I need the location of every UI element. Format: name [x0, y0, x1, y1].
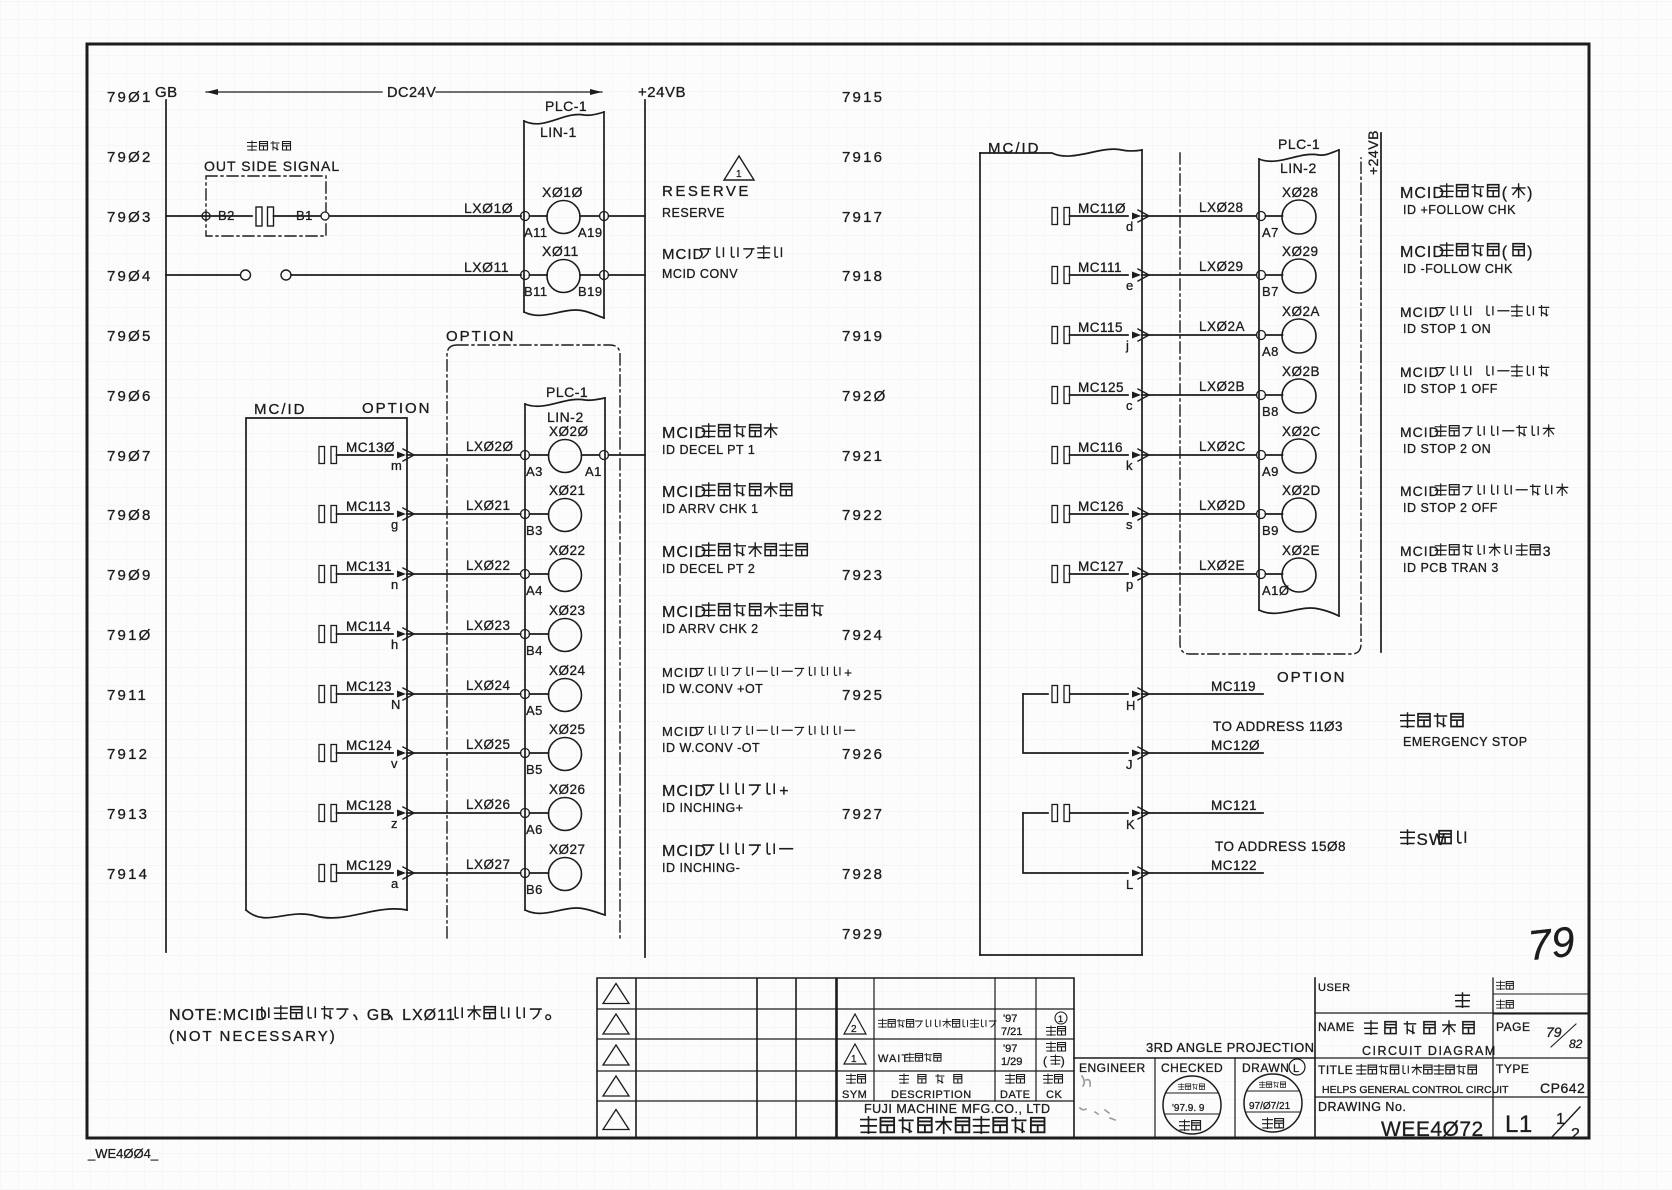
svg-text:XØ21: XØ21: [549, 483, 586, 498]
wire MC128 to MC/ID box edge: [337, 812, 394, 814]
svg-text:+24VB: +24VB: [638, 84, 686, 101]
svg-text:7918: 7918: [842, 268, 884, 285]
wire row 7904 from GB bus: [166, 274, 240, 276]
svg-text:ID INCHING+: ID INCHING+: [662, 801, 744, 815]
svg-text:ID DECEL PT 1: ID DECEL PT 1: [662, 443, 755, 457]
svg-text:7923: 7923: [842, 567, 884, 584]
svg-text:792Ø: 792Ø: [842, 388, 888, 405]
svg-text:MCID: MCID: [1400, 364, 1440, 380]
revision 2 entry: [844, 1014, 866, 1034]
node B5 connector circle: [521, 749, 530, 758]
svg-text:7912: 7912: [107, 746, 149, 763]
PLC input XØ25: [530, 752, 549, 754]
wire LXØ21: [407, 513, 521, 515]
svg-text:'97: '97: [1003, 1013, 1017, 1025]
svg-text:g: g: [391, 517, 398, 532]
svg-text:A9: A9: [1262, 464, 1279, 479]
svg-text:7/21: 7/21: [1001, 1026, 1022, 1038]
svg-text:a: a: [391, 876, 399, 891]
wire MC11Ø to box edge: [1070, 215, 1129, 217]
bus GB vertical wire: [165, 100, 167, 952]
wire row 7904 to PLC: [291, 274, 521, 276]
arrow into option bus: [397, 691, 406, 698]
svg-text:MC123: MC123: [346, 679, 392, 694]
wire row 7903 from GB bus to contact: [166, 215, 252, 217]
connector pins MC124: [319, 745, 325, 762]
svg-text:MC114: MC114: [346, 619, 391, 634]
svg-text:K: K: [1126, 817, 1135, 832]
svg-text:LXØ25: LXØ25: [466, 737, 511, 752]
svg-text:TITLE: TITLE: [1318, 1063, 1353, 1077]
svg-text:MCID: MCID: [1400, 483, 1440, 499]
svg-text:NOTE:MCID: NOTE:MCID: [169, 1007, 268, 1024]
svg-text:7928: 7928: [842, 866, 884, 883]
svg-text:MC129: MC129: [346, 858, 392, 873]
svg-text:MCID: MCID: [1400, 244, 1445, 261]
node A7 connector circle: [1257, 212, 1266, 221]
signature cells: [1155, 1058, 1235, 1138]
connector pins MC129: [319, 865, 325, 882]
bus +24VB vertical wire: [644, 100, 646, 957]
svg-text:L1: L1: [1505, 1111, 1533, 1138]
svg-text:EMERGENCY STOP: EMERGENCY STOP: [1403, 735, 1528, 749]
wire MC116 to box edge: [1070, 454, 1129, 456]
arrow into option bus: [397, 870, 406, 877]
svg-text:FUJI MACHINE MFG.CO., LTD: FUJI MACHINE MFG.CO., LTD: [864, 1102, 1051, 1116]
wire MC131 to MC/ID box edge: [337, 573, 394, 575]
svg-text:MC127: MC127: [1078, 559, 1124, 574]
PLC input XØ2A: [1266, 334, 1283, 336]
svg-text:7917: 7917: [842, 209, 884, 226]
svg-text:B8: B8: [1262, 404, 1279, 419]
svg-text:MC/ID: MC/ID: [254, 401, 307, 418]
svg-text:'97.9. 9: '97.9. 9: [1172, 1103, 1205, 1114]
wire MC114 to MC/ID box edge: [337, 633, 394, 635]
revision triangle marker: [603, 984, 629, 1004]
svg-text:79Ø6: 79Ø6: [107, 388, 153, 405]
svg-text:ID ARRV CHK 2: ID ARRV CHK 2: [662, 622, 759, 636]
3rd-angle projection cell: [1074, 978, 1315, 1138]
svg-text:TYPE: TYPE: [1496, 1062, 1529, 1076]
revision record table: [837, 978, 1074, 1138]
svg-text:7915: 7915: [842, 89, 884, 106]
node B11 connector circle: [521, 271, 530, 280]
svg-text:XØ11: XØ11: [542, 243, 579, 259]
svg-text:79Ø4: 79Ø4: [107, 268, 153, 285]
wire MC123 to MC/ID box edge: [337, 693, 394, 695]
node A1 connector circle: [600, 451, 609, 460]
wire LXØ2Ø: [407, 454, 521, 456]
svg-text:2: 2: [1571, 1126, 1580, 1143]
svg-text:MCID: MCID: [1400, 304, 1440, 320]
svg-text:79: 79: [1546, 1024, 1562, 1040]
svg-text:J: J: [1126, 757, 1133, 772]
svg-text:CHECKED: CHECKED: [1161, 1061, 1223, 1075]
svg-text:HELPS GENERAL CONTROL CIRCUIT: HELPS GENERAL CONTROL CIRCUIT: [1322, 1084, 1509, 1096]
svg-text:k: k: [1126, 458, 1133, 473]
branch wire with connector pins (MC119): [1023, 693, 1128, 695]
connector pins MC128: [319, 805, 325, 822]
svg-text:7927: 7927: [842, 806, 884, 823]
node B6 connector circle: [521, 869, 530, 878]
svg-text:LXØ23: LXØ23: [466, 618, 511, 633]
svg-text:7926: 7926: [842, 746, 884, 763]
svg-text:MCID: MCID: [1400, 424, 1440, 440]
svg-text:z: z: [391, 816, 398, 831]
svg-text:XØ2C: XØ2C: [1282, 424, 1321, 439]
svg-text:7922: 7922: [842, 507, 884, 524]
svg-text:XØ28: XØ28: [1282, 185, 1319, 200]
arrow into option bus: [397, 750, 406, 757]
svg-text:79Ø1: 79Ø1: [107, 89, 153, 106]
svg-text:e: e: [1126, 278, 1133, 293]
node B7 connector circle: [1257, 271, 1266, 280]
svg-text:ID W.CONV +OT: ID W.CONV +OT: [662, 682, 763, 696]
node B3 connector circle: [521, 510, 530, 519]
svg-text:GB: GB: [367, 1007, 392, 1024]
connector pins MC116: [1052, 447, 1058, 464]
svg-text:OUT SIDE SIGNAL: OUT SIDE SIGNAL: [204, 158, 340, 174]
PLC input XØ28: [1266, 215, 1283, 217]
revision triangle marker: [603, 1110, 629, 1130]
svg-text:CIRCUIT DIAGRAM: CIRCUIT DIAGRAM: [1362, 1044, 1497, 1058]
svg-text:7929: 7929: [842, 926, 884, 943]
svg-text:MC121: MC121: [1211, 798, 1257, 813]
svg-text:DATE: DATE: [1000, 1089, 1031, 1101]
arrow J: [1132, 750, 1141, 757]
svg-text:ID STOP 1 OFF: ID STOP 1 OFF: [1403, 382, 1498, 396]
wire MC125 to box edge: [1070, 394, 1129, 396]
svg-text:LXØ2Ø: LXØ2Ø: [466, 439, 514, 454]
svg-text:79: 79: [1526, 918, 1577, 970]
arrow into option bus: [1132, 213, 1141, 220]
svg-text:A19: A19: [578, 225, 603, 240]
node A8 connector circle: [1257, 331, 1266, 340]
svg-text:LXØ22: LXØ22: [466, 558, 511, 573]
svg-text:7925: 7925: [842, 687, 884, 704]
svg-text:LXØ11: LXØ11: [402, 1007, 456, 1024]
svg-text:XØ25: XØ25: [549, 722, 586, 737]
node A9 connector circle: [1257, 451, 1266, 460]
wire LXØ2E: [1142, 573, 1257, 575]
arrow into option bus: [1132, 392, 1141, 399]
PLC input XØ2B: [1266, 394, 1283, 396]
svg-text:+: +: [779, 783, 789, 800]
svg-text:XØ27: XØ27: [549, 842, 586, 857]
svg-text:MCID: MCID: [1400, 185, 1445, 202]
svg-text:OPTION: OPTION: [1277, 669, 1347, 686]
wire MC121: [1142, 812, 1263, 814]
svg-text:MC126: MC126: [1078, 499, 1124, 514]
svg-text:RESERVE: RESERVE: [662, 183, 751, 200]
wire LXØ24: [407, 693, 521, 695]
svg-text:82: 82: [1569, 1037, 1583, 1051]
svg-text:7919: 7919: [842, 328, 884, 345]
wire MC115 to box edge: [1070, 334, 1129, 336]
svg-text:'97: '97: [1003, 1043, 1017, 1055]
arrow into option bus: [397, 571, 406, 578]
svg-text:1: 1: [851, 1054, 857, 1065]
node A4 connector circle: [521, 570, 530, 579]
svg-text:7913: 7913: [107, 806, 149, 823]
svg-text:B6: B6: [526, 882, 543, 897]
arrow into option bus: [397, 631, 406, 638]
revision triangle table: [597, 978, 836, 1138]
PLC input XØ22: [530, 573, 549, 575]
svg-text:LXØ2A: LXØ2A: [1199, 319, 1245, 334]
svg-text:B5: B5: [526, 762, 543, 777]
PLC input XØ2Ø: [530, 454, 549, 456]
svg-text:WAIT: WAIT: [878, 1053, 909, 1065]
svg-text:USER: USER: [1318, 982, 1351, 994]
svg-text:LIN-2: LIN-2: [547, 409, 584, 425]
svg-text:3RD ANGLE PROJECTION: 3RD ANGLE PROJECTION: [1146, 1040, 1314, 1055]
svg-text:(: (: [1502, 185, 1508, 202]
svg-text:PAGE: PAGE: [1496, 1020, 1530, 1034]
svg-text:A3: A3: [526, 464, 543, 479]
wire row 7903 contact to PLC: [274, 215, 522, 217]
svg-text:GB: GB: [155, 84, 178, 101]
annotation EMERGENCY STOP: [1401, 713, 1415, 727]
connector pins MC13Ø: [319, 447, 325, 464]
svg-text:79Ø9: 79Ø9: [107, 567, 153, 584]
svg-text:n: n: [391, 577, 398, 592]
svg-text:MCID: MCID: [662, 544, 707, 561]
wire to +24VB bus: [582, 454, 646, 456]
svg-text:RESERVE: RESERVE: [662, 206, 725, 220]
terminal node on box right edge: [321, 212, 329, 220]
PLC input XØ26: [530, 812, 549, 814]
svg-text:LXØ24: LXØ24: [466, 678, 511, 693]
svg-text:XØ29: XØ29: [1282, 244, 1319, 259]
svg-text:): ): [1527, 185, 1533, 202]
open plug contact (right): [281, 270, 291, 280]
open plug contact (left): [241, 270, 251, 280]
svg-text:v: v: [391, 756, 398, 771]
svg-text:XØ2A: XØ2A: [1282, 304, 1320, 319]
svg-text:3: 3: [1543, 543, 1552, 559]
PLC input XØ2D: [1266, 513, 1283, 515]
svg-text:A11: A11: [524, 225, 548, 240]
svg-text:XØ2B: XØ2B: [1282, 364, 1320, 379]
approval stamp (drawn: Esaka): [1244, 1074, 1302, 1132]
svg-text:MCID: MCID: [662, 724, 699, 739]
svg-text:B11: B11: [524, 284, 548, 299]
svg-text:MCID: MCID: [662, 246, 704, 263]
svg-text:SYM: SYM: [842, 1089, 867, 1101]
connector pins MC111: [1052, 267, 1058, 284]
svg-text:MC111: MC111: [1078, 260, 1122, 275]
svg-text:j: j: [1125, 338, 1129, 353]
svg-text:h: h: [391, 637, 398, 652]
svg-text:XØ2E: XØ2E: [1282, 543, 1320, 558]
svg-text:ID STOP 2 ON: ID STOP 2 ON: [1403, 442, 1491, 456]
svg-text:d: d: [1126, 219, 1133, 234]
svg-text:LXØ1Ø: LXØ1Ø: [464, 200, 513, 216]
wire MC111 to box edge: [1070, 274, 1129, 276]
svg-text:7914: 7914: [107, 866, 149, 883]
svg-text:XØ1Ø: XØ1Ø: [542, 184, 583, 200]
svg-text:PLC-1: PLC-1: [1278, 136, 1320, 152]
revision triangle marker: [603, 1076, 629, 1096]
node B4 connector circle: [521, 630, 530, 639]
wire LXØ25: [407, 752, 521, 754]
arrow into option bus: [397, 810, 406, 817]
connector pins MC123: [319, 686, 325, 703]
svg-text:ID ARRV CHK 1: ID ARRV CHK 1: [662, 502, 759, 516]
wire MC119: [1142, 693, 1263, 695]
svg-text:WEE4Ø72: WEE4Ø72: [1381, 1118, 1484, 1141]
svg-text:c: c: [1126, 398, 1133, 413]
wire MC124 to MC/ID box edge: [337, 752, 394, 754]
svg-text:A5: A5: [526, 703, 543, 718]
svg-text:ID STOP 1 ON: ID STOP 1 ON: [1403, 322, 1491, 336]
svg-text:PLC-1: PLC-1: [545, 98, 587, 114]
svg-text:): ): [1527, 244, 1533, 261]
svg-text:MC125: MC125: [1078, 380, 1124, 395]
svg-text:MC/ID: MC/ID: [988, 140, 1041, 157]
approval stamp (checked: Yamamoto): [1163, 1076, 1221, 1134]
svg-text:SW: SW: [1417, 830, 1446, 849]
svg-text:DESCRIPTION: DESCRIPTION: [891, 1089, 972, 1101]
wire row 7904 to +24VB bus: [609, 274, 646, 276]
svg-text:ENGINEER: ENGINEER: [1079, 1061, 1146, 1075]
wire LXØ28: [1142, 215, 1257, 217]
svg-text:MCID: MCID: [662, 604, 707, 621]
node A11 connector circle: [521, 212, 530, 221]
svg-text:DRAWING No.: DRAWING No.: [1318, 1100, 1406, 1114]
svg-text:): ): [1061, 1054, 1066, 1068]
svg-text:B19: B19: [578, 284, 603, 299]
node A5 connector circle: [521, 690, 530, 699]
svg-text:A4: A4: [526, 583, 543, 598]
svg-text:7911: 7911: [107, 687, 148, 704]
PLC input XØ27: [530, 872, 549, 874]
node B9 connector circle: [1257, 510, 1266, 519]
svg-text:LXØ11: LXØ11: [464, 259, 509, 275]
svg-text:MC119: MC119: [1211, 679, 1256, 694]
arrow into option bus: [397, 511, 406, 518]
svg-text:MC115: MC115: [1078, 320, 1123, 335]
node A1Ø connector circle: [1257, 570, 1266, 579]
arrow into option bus: [1132, 452, 1141, 459]
wire LXØ2C: [1142, 454, 1257, 456]
svg-text:LXØ26: LXØ26: [466, 797, 511, 812]
svg-text:LXØ27: LXØ27: [466, 857, 511, 872]
svg-text:ID +FOLLOW CHK: ID +FOLLOW CHK: [1403, 203, 1516, 217]
svg-text:MC11Ø: MC11Ø: [1078, 201, 1126, 216]
PLC input XØ2E: [1266, 573, 1283, 575]
svg-text:MC128: MC128: [346, 798, 392, 813]
PLC input X011: [530, 274, 548, 276]
svg-text:(NOT NECESSARY): (NOT NECESSARY): [169, 1028, 337, 1045]
junction wire down to MC122 branch: [1023, 813, 1128, 873]
svg-text:XØ2D: XØ2D: [1282, 483, 1321, 498]
svg-text:LXØ21: LXØ21: [466, 498, 511, 513]
svg-text:1: 1: [736, 169, 742, 180]
svg-text:MC113: MC113: [346, 499, 391, 514]
svg-text:1/29: 1/29: [1001, 1056, 1022, 1068]
wire LXØ27: [407, 872, 521, 874]
svg-text:ID INCHING-: ID INCHING-: [662, 861, 740, 875]
arrow into option bus: [397, 452, 406, 459]
svg-text:MC13Ø: MC13Ø: [346, 440, 395, 455]
svg-text:79Ø7: 79Ø7: [107, 448, 153, 465]
connector pins MC125: [1052, 387, 1058, 404]
svg-text:97/Ø7/21: 97/Ø7/21: [1249, 1101, 1291, 1112]
svg-text:MCID: MCID: [662, 484, 707, 501]
svg-text:DRAWN: DRAWN: [1242, 1061, 1289, 1075]
svg-text:s: s: [1126, 517, 1133, 532]
svg-text:79Ø5: 79Ø5: [107, 328, 153, 345]
revision warning triangle 1: [724, 156, 754, 180]
svg-text:B2: B2: [218, 208, 235, 223]
svg-text:XØ22: XØ22: [549, 543, 586, 558]
svg-text:7924: 7924: [842, 627, 884, 644]
svg-text:LXØ2D: LXØ2D: [1199, 498, 1246, 513]
wire LXØ2D: [1142, 513, 1257, 515]
svg-text:MC131: MC131: [346, 559, 392, 574]
sheet index cells: [1493, 994, 1589, 1014]
svg-text:B4: B4: [526, 643, 543, 658]
svg-text:7921: 7921: [842, 448, 884, 465]
PLC input XØ24: [530, 693, 549, 695]
svg-text:OPTION: OPTION: [446, 328, 516, 345]
svg-text:H: H: [1126, 698, 1135, 713]
arrow into option bus: [1132, 332, 1141, 339]
wire LXØ26: [407, 812, 521, 814]
svg-text:LIN-1: LIN-1: [540, 124, 577, 140]
svg-text:A1: A1: [585, 464, 602, 479]
connector pins MC11Ø: [1052, 208, 1058, 225]
svg-text:(: (: [1502, 244, 1508, 261]
svg-text:PLC-1: PLC-1: [546, 384, 588, 400]
node A3 connector circle: [521, 451, 530, 460]
svg-text:MC12Ø: MC12Ø: [1211, 738, 1260, 753]
wire LXØ29: [1142, 274, 1257, 276]
svg-text:+24VB: +24VB: [1365, 130, 1381, 175]
svg-text:ID -FOLLOW CHK: ID -FOLLOW CHK: [1403, 262, 1513, 276]
svg-text:79Ø8: 79Ø8: [107, 507, 153, 524]
annotation door SW closed: [1401, 830, 1415, 844]
svg-text:CK: CK: [1046, 1089, 1062, 1101]
svg-text:2: 2: [851, 1024, 857, 1035]
svg-text:L: L: [1293, 1063, 1299, 1075]
svg-text:MCID: MCID: [662, 843, 707, 860]
svg-text:MC116: MC116: [1078, 440, 1123, 455]
svg-text:DC24V: DC24V: [387, 85, 436, 101]
svg-text:+: +: [844, 665, 853, 680]
svg-text:MCID: MCID: [662, 665, 699, 680]
svg-text:LXØ2B: LXØ2B: [1199, 379, 1245, 394]
wire MC12Ø: [1142, 752, 1263, 754]
arrow into option bus: [1132, 272, 1141, 279]
svg-text:ID W.CONV -OT: ID W.CONV -OT: [662, 741, 760, 755]
wire LXØ23: [407, 633, 521, 635]
annotation 外部信号: [248, 141, 257, 151]
wire MC126 to box edge: [1070, 513, 1129, 515]
svg-text:NAME: NAME: [1318, 1020, 1355, 1034]
revision 1 entry: [844, 1044, 866, 1064]
arrow L: [1132, 870, 1141, 877]
svg-text:ID PCB TRAN 3: ID PCB TRAN 3: [1403, 561, 1499, 575]
junction wire down to MC12Ø branch: [1023, 694, 1128, 753]
wire MC127 to box edge: [1070, 573, 1129, 575]
PLC input XØ29: [1266, 274, 1283, 276]
connector pins MC113: [319, 506, 325, 523]
svg-text:N: N: [391, 697, 400, 712]
PLC input XØ2C: [1266, 454, 1283, 456]
